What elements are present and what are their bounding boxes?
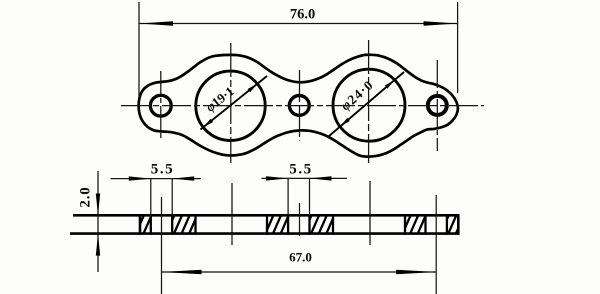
dim 5.5 center ext lines <box>287 178 289 215</box>
section centerline right hole <box>435 195 437 294</box>
hole circle phi19.1 <box>196 71 265 140</box>
section centerline c2 <box>369 181 371 245</box>
dim 5.5 left arrows <box>129 176 151 180</box>
svg-text:φ19·1: φ19·1 <box>203 83 237 114</box>
svg-text:2.0: 2.0 <box>78 186 94 207</box>
svg-text:5.5: 5.5 <box>289 162 313 178</box>
dim 76.0 line <box>139 23 458 25</box>
leader phi19.1 arrows <box>203 119 213 128</box>
dim 5.5 left: line <box>111 178 202 180</box>
centerline vertical right hole <box>436 60 438 151</box>
centerline vertical center hole <box>299 70 301 141</box>
centerline horizontal main <box>121 105 484 107</box>
centerline vertical left hole <box>160 71 162 141</box>
section hatching <box>140 215 458 233</box>
dim 76.0 extension line left <box>138 2 140 97</box>
hole circle phi24.0 <box>333 69 405 141</box>
svg-text:76.0: 76.0 <box>290 7 315 23</box>
dim 76.0 arrow left <box>139 21 173 26</box>
section hole wall edges <box>151 214 447 235</box>
dim 67.0 line <box>162 271 437 273</box>
section centerline center hole <box>299 203 301 236</box>
section rect left edge <box>139 214 142 235</box>
leader phi19.1 line <box>201 76 268 130</box>
section rect bottom line <box>70 232 458 235</box>
leader phi24.0 line <box>329 72 405 137</box>
section centerline c1 <box>231 183 233 245</box>
svg-text:5.5: 5.5 <box>151 162 175 178</box>
dim 5.5 center: line <box>262 177 348 179</box>
svg-text:φ24·0: φ24·0 <box>338 77 377 113</box>
centerline vertical c2 <box>368 40 370 163</box>
section centerline left hole <box>161 197 163 294</box>
dim 5.5 center arrows <box>266 176 288 180</box>
leader phi24.0 arrows <box>340 118 350 127</box>
dim 67.0 arrows <box>162 270 202 275</box>
svg-text:67.0: 67.0 <box>289 250 312 265</box>
dim 76.0 extension line right <box>457 2 459 93</box>
hole circle left small <box>150 95 171 116</box>
dim 2.0 arrows <box>96 194 100 216</box>
dim 76.0 arrow right <box>424 21 458 26</box>
section rect top line (with left extension for 2.0 dim) <box>73 214 458 217</box>
hole circle right small <box>428 96 447 115</box>
dim 5.5 left ext lines <box>150 179 152 216</box>
centerline vertical c1 <box>230 43 232 163</box>
section rect right edge <box>457 214 460 235</box>
hole circle center small <box>289 96 309 116</box>
dim 2.0 vertical line <box>97 171 99 272</box>
gasket outline <box>139 55 458 157</box>
